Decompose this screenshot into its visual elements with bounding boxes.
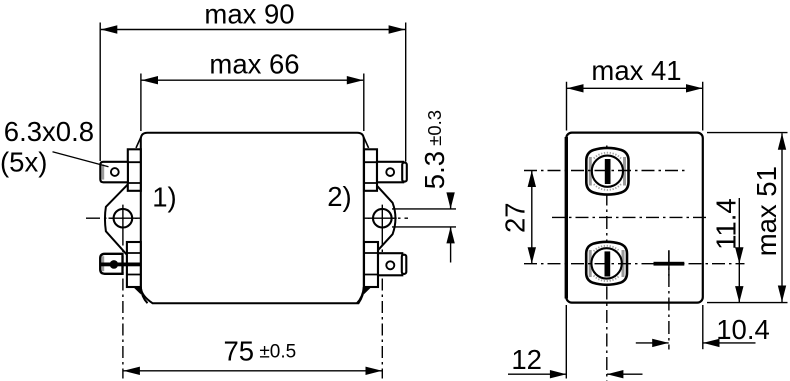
receptacle lower circle <box>591 248 621 278</box>
dimension 12 extension line (left edge extended) <box>565 305 567 379</box>
dimension max 90 line <box>101 29 405 31</box>
svg-text:12: 12 <box>511 344 542 375</box>
mounting hole centerline right (vertical dash-dot to 75 dim) <box>381 234 383 379</box>
earth tab centerline (vertical) <box>668 251 670 350</box>
side body outline <box>566 133 703 303</box>
dimension 10.4 extension line (right edge) <box>702 305 704 349</box>
gusset wedge bottom-right <box>364 288 369 293</box>
svg-text:max 66: max 66 <box>209 49 299 80</box>
dimension max 41 extension lines <box>567 82 703 131</box>
dimension 5.3 extension line bottom <box>392 226 456 228</box>
dimension max 90 extension line right <box>405 23 407 162</box>
dimension max 90 arrow left <box>101 25 118 33</box>
svg-text:1): 1) <box>152 182 176 213</box>
dimension 11.4 arrow mid (down) <box>735 247 743 264</box>
receptacle upper shading <box>589 157 592 186</box>
dimension max 51 extension lines <box>707 133 788 303</box>
dimension max 66 extension line left <box>140 74 142 132</box>
svg-text:max 41: max 41 <box>591 55 681 86</box>
svg-text:max 51: max 51 <box>751 166 782 256</box>
dimension 27 arrow top (up) <box>528 171 536 188</box>
insulator block lower-right steps <box>364 253 378 275</box>
terminal barrel lower-left <box>100 254 122 274</box>
mounting hole centerline left (vertical dash-dot to 75 dim) <box>122 234 124 379</box>
filter body outline <box>141 133 364 303</box>
dimension max 51 line <box>781 133 783 302</box>
svg-text:10.4: 10.4 <box>716 314 770 345</box>
side body left edge (thick flange) <box>565 137 568 299</box>
receptacle upper slot <box>605 159 611 184</box>
upper terminal centerline (horizontal) <box>524 170 685 172</box>
insulator block lower-right <box>364 242 378 287</box>
dimension max 41 arrow left <box>567 84 584 92</box>
dimension 10.4 line left part <box>636 342 669 344</box>
gusset diagonal top-right <box>364 137 369 148</box>
mounting ear left outline <box>105 184 128 256</box>
earth tab mark (thick bar) <box>654 262 685 266</box>
dimension 12 line right part <box>607 373 643 375</box>
receptacle lower knurl ring <box>594 246 620 281</box>
insulator block upper-left <box>128 149 141 191</box>
dimension max 66 arrow left <box>142 76 159 84</box>
earth tab crosshair vertical <box>668 250 670 276</box>
dimension 5.3 extension line top <box>392 208 456 210</box>
lower terminal centerline (horizontal) <box>524 263 745 265</box>
gusset diagonal top-left <box>136 137 141 148</box>
dimension 75 arrow right <box>366 367 383 375</box>
dimension max 41 arrow right <box>686 84 703 92</box>
body bottom corner fillet left <box>141 287 148 303</box>
dimension 11.4 line <box>738 198 740 303</box>
insulator block lower-left steps <box>127 253 141 275</box>
dimension max 90 arrow right <box>389 25 406 33</box>
dimension 75 arrow left <box>123 367 139 375</box>
leader line 6.3x0.8 <box>53 152 109 167</box>
svg-text:11.4: 11.4 <box>711 198 742 249</box>
dimension 12 arrow (right) <box>550 370 567 378</box>
tab shading upper-left <box>102 164 105 179</box>
receptacle lower slot <box>605 251 611 276</box>
middle centerline (horizontal) <box>552 216 710 218</box>
receptacle upper knurl ring <box>594 153 621 190</box>
insulator block upper-left steps <box>128 162 141 183</box>
dimension 10.4 arrow (left) <box>703 339 720 347</box>
mounting hole right <box>373 209 392 228</box>
receptacle upper circle <box>592 156 623 187</box>
dimension 5.3 line lower segment <box>450 227 452 263</box>
terminal dot lower-left <box>110 260 119 269</box>
dimension max 41 line <box>567 87 703 89</box>
dimension 12 line left part <box>508 373 566 375</box>
tab hole upper-right <box>386 168 394 176</box>
dimension 5.3 lower arrow (up) <box>446 227 454 244</box>
insulator block lower-left <box>127 242 141 287</box>
dimension 27 line <box>531 171 533 264</box>
mounting hole right crosshair <box>368 205 397 234</box>
terminal centerline (vertical through both receptacles) <box>606 146 608 381</box>
terminal bar lower-left <box>101 263 141 267</box>
receptacle upper outline <box>586 148 628 195</box>
tab end cap lower-right <box>402 255 407 274</box>
terminal tab upper-left <box>100 162 128 183</box>
dimension 27 arrow bottom (down) <box>528 247 536 264</box>
dimension max 66 line <box>142 79 364 81</box>
body bottom corner fillet right <box>357 287 364 303</box>
tab end cap upper-right <box>402 163 407 182</box>
tab hole lower-right <box>386 261 394 269</box>
mounting hole left <box>114 209 133 228</box>
barrel shading lower-left <box>102 256 105 271</box>
receptacle lower outline <box>586 242 627 285</box>
terminal tab lower-right <box>378 253 402 275</box>
dimension 5.3 line upper segment <box>450 193 452 209</box>
mounting hole left crosshair <box>109 205 138 234</box>
receptacle lower shading <box>589 250 592 277</box>
svg-text:6.3x0.8: 6.3x0.8 <box>4 116 94 147</box>
dimension max 66 extension line right <box>363 74 365 132</box>
mounting ear right outline <box>377 186 395 251</box>
gusset wedge bottom-left <box>135 288 140 293</box>
dimension max 51 arrow bottom (down) <box>778 286 786 303</box>
svg-text:27: 27 <box>499 202 530 233</box>
svg-text:max 90: max 90 <box>204 0 294 29</box>
dimension 11.4 arrow bottom (down) <box>735 286 743 303</box>
tab hole upper-left <box>111 168 119 176</box>
terminal tab upper-right <box>377 162 403 183</box>
dimension 10.4 arrow (right) <box>652 339 669 347</box>
dimension 10.4 line right part <box>703 342 756 344</box>
svg-text:2): 2) <box>327 181 351 212</box>
insulator block upper-right steps <box>364 162 377 183</box>
insulator block upper-right <box>364 149 377 191</box>
dimension 5.3 upper arrow (down) <box>446 192 454 209</box>
dimension max 51 arrow top (up) <box>778 133 786 150</box>
dimension max 90 extension line left <box>99 23 101 162</box>
centerline horizontal (unit axis, left view) <box>86 217 408 219</box>
svg-text:(5x): (5x) <box>0 147 47 178</box>
dimension 12 arrow (left) <box>607 370 624 378</box>
dimension max 66 arrow right <box>347 76 364 84</box>
dimension 75 line <box>123 370 382 372</box>
